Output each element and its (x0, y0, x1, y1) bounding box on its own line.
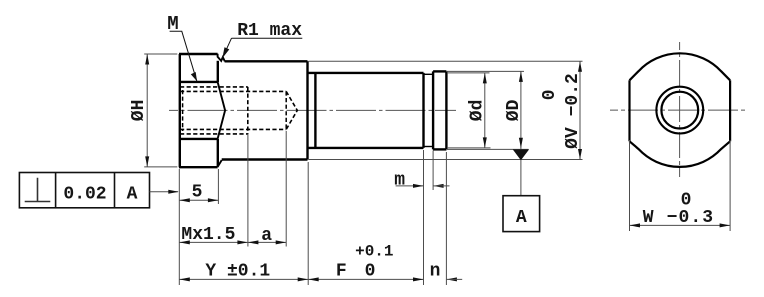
extension line groove right (432, 151, 434, 191)
extension line W right (729, 140, 731, 231)
right view right flat (729, 80, 731, 141)
svg-text:n: n (430, 261, 441, 281)
svg-text:0: 0 (365, 261, 376, 281)
arrow phiH bottom (145, 156, 149, 167)
hole chamfer V (218, 82, 226, 139)
arrow phid top (483, 73, 487, 84)
head right face upper segment (217, 61, 219, 82)
svg-text:A: A (127, 185, 138, 205)
head outline (179, 54, 218, 167)
collar top edge (433, 70, 446, 72)
groove right edge (432, 71, 434, 149)
hole entry solid line top (180, 81, 218, 83)
head right face lower segment (217, 139, 219, 167)
extension line thread end (247, 134, 249, 247)
extension line phiD top (447, 70, 524, 72)
R1 underline (232, 37, 303, 39)
arrow phiD top (519, 71, 523, 82)
frame divider 2 (114, 173, 116, 208)
svg-text:Mx1.5: Mx1.5 (181, 225, 235, 245)
extension line W left (629, 140, 631, 231)
dimension 5 line (179, 199, 218, 201)
dimension a line (248, 241, 286, 243)
arrow a left (248, 240, 259, 244)
leader M arrowhead (191, 72, 197, 81)
datum triangle A (513, 149, 529, 160)
dimension F line (308, 278, 423, 280)
svg-text:ØV −0.2: ØV −0.2 (563, 73, 583, 149)
arrow phiV top (578, 61, 582, 72)
extension line phid bottom (447, 147, 491, 149)
neck step face (306, 61, 308, 159)
arrow W left (630, 223, 641, 227)
hidden drill point cone (286, 91, 297, 129)
extension line groove left (423, 150, 425, 285)
svg-text:W −0.3: W −0.3 (643, 208, 714, 228)
extension line neck step (307, 162, 309, 285)
hidden entry vertical near left face (182, 90, 184, 131)
dimension m left tail line (396, 185, 424, 187)
R1 leader line (222, 38, 231, 58)
arrow phiH top (145, 54, 149, 65)
arrow Mx1.5 left (179, 240, 190, 244)
frame leader line (150, 191, 179, 193)
hidden thread major top (180, 86, 248, 88)
perpendicularity symbol (25, 178, 51, 202)
leader M line (170, 31, 197, 81)
extension line phiV top (309, 60, 583, 62)
svg-text:+0.1: +0.1 (355, 243, 393, 261)
shaft top edge (309, 72, 424, 74)
extension line drill end (285, 131, 287, 247)
svg-text:a: a (261, 226, 272, 246)
extension line phid top (447, 72, 490, 74)
right view left flat (628, 80, 630, 141)
arrow a right (276, 240, 287, 244)
extension line below head left face (178, 169, 180, 285)
arrow F left (308, 277, 319, 281)
hidden drill end vertical (285, 91, 287, 129)
head bottom chamfer and relief notch (218, 160, 222, 167)
extension line phiV bottom (309, 159, 583, 161)
right view thread minor circle (661, 92, 698, 129)
dimension Y line (179, 278, 308, 280)
hole entry solid line bottom (180, 138, 218, 140)
svg-text:F: F (336, 261, 347, 281)
dimension Mx1.5 line (179, 241, 248, 243)
svg-text:ØD: ØD (504, 99, 524, 121)
dimension line phiV (579, 61, 581, 159)
R1 leader arrowhead (222, 47, 229, 58)
right view vertical centerline (679, 42, 681, 177)
dimension n right outside arrow (446, 277, 457, 281)
groove bottom of cut bottom edge (424, 146, 434, 148)
shaft left inner vertical line (314, 73, 316, 148)
collar end face (445, 71, 447, 149)
svg-text:ØH: ØH (129, 100, 149, 122)
arrow 5 left (179, 198, 190, 202)
svg-text:0.02: 0.02 (63, 185, 106, 205)
collar bottom edge (433, 148, 446, 150)
frame leader arrowhead (168, 190, 179, 194)
arrow Y right (298, 277, 309, 281)
datum box A (503, 196, 540, 232)
svg-text:m: m (394, 171, 405, 191)
shaft bottom edge (309, 147, 424, 149)
right view horizontal centerline (610, 109, 748, 111)
arrow m left (pointing right) (413, 184, 424, 188)
hidden drill top (180, 90, 286, 92)
hidden thread major bottom (180, 133, 248, 135)
svg-text:Y ±0.1: Y ±0.1 (205, 261, 270, 281)
arrow phid bottom (483, 137, 487, 148)
perpendicularity feature control frame (19, 173, 149, 208)
groove left edge (422, 73, 424, 148)
svg-text:0: 0 (540, 89, 560, 100)
svg-text:5: 5 (192, 183, 203, 203)
arrow Y left (179, 277, 190, 281)
frame divider 1 (55, 173, 57, 208)
hidden drill bottom (180, 128, 286, 130)
arrow W right (720, 223, 731, 227)
arrow F right (413, 277, 424, 281)
svg-text:A: A (516, 208, 527, 228)
hidden thread end vertical (247, 87, 249, 134)
arrow 5 right (208, 198, 219, 202)
extension line phiD bottom (447, 148, 529, 150)
arrow m right (pointing left) (433, 184, 444, 188)
right view head circle with flats (630, 53, 731, 167)
arrow phiD bottom (519, 138, 523, 149)
extension line collar end (445, 152, 447, 285)
dimension line phiH (146, 54, 148, 167)
neck bottom edge (222, 158, 308, 160)
dimension line phiD and datum stem (520, 71, 522, 195)
dimension W line (630, 224, 731, 226)
neck top edge (225, 60, 308, 62)
head top chamfer and R1 relief notch (218, 54, 225, 62)
extension line phiH bottom (144, 166, 177, 168)
svg-text:Ød: Ød (468, 100, 488, 122)
extension line below head right face (217, 169, 219, 204)
groove bottom of cut top edge (424, 73, 434, 75)
arrow phiV bottom (578, 149, 582, 160)
extension line phiH top (144, 53, 177, 55)
right view thread major circle (656, 87, 703, 134)
centerline front view (169, 109, 456, 111)
dimension n right tail line (446, 278, 462, 280)
dimension m right tail line (433, 185, 449, 187)
arrow Mx1.5 right (237, 240, 248, 244)
dimension line phid (484, 73, 486, 148)
